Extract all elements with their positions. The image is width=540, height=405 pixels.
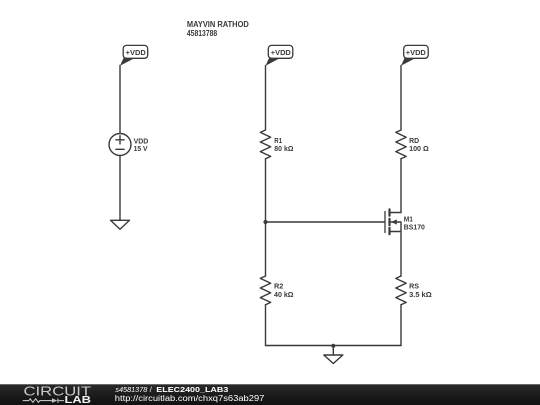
svg-text:BS170: BS170 <box>404 223 425 232</box>
svg-text:80 kΩ: 80 kΩ <box>274 144 293 153</box>
svg-text:+VDD: +VDD <box>271 48 291 57</box>
svg-text:15 V: 15 V <box>134 144 149 153</box>
svg-text:45813788: 45813788 <box>187 29 218 38</box>
svg-text:+VDD: +VDD <box>126 48 146 57</box>
svg-text:http://circuitlab.com/chxq7s63: http://circuitlab.com/chxq7s63ab297 <box>115 394 265 403</box>
svg-text:40 kΩ: 40 kΩ <box>274 290 294 299</box>
svg-text:s4581378: s4581378 <box>115 385 148 394</box>
svg-text:ELEC2400_LAB3: ELEC2400_LAB3 <box>156 385 228 394</box>
svg-text:100 Ω: 100 Ω <box>409 144 429 153</box>
svg-text:LAB: LAB <box>65 395 92 405</box>
svg-text:MAYVIN RATHOD: MAYVIN RATHOD <box>187 20 249 29</box>
svg-text:3.5 kΩ: 3.5 kΩ <box>409 290 432 299</box>
svg-text:+VDD: +VDD <box>406 48 426 57</box>
